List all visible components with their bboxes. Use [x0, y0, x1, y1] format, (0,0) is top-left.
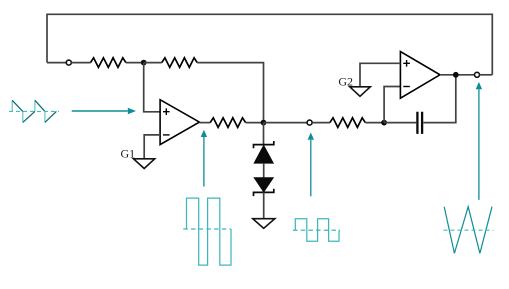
- capacitor C1: [417, 112, 422, 134]
- triangle waveform icon: [444, 207, 492, 254]
- ground G3: [253, 219, 275, 229]
- resistor R1: [91, 58, 126, 68]
- wire between zeners: [263, 163, 265, 178]
- square waveform small centerline: [293, 229, 340, 231]
- wire U1 output stub: [199, 122, 210, 124]
- junction dot C: [381, 120, 387, 126]
- junction dot B: [261, 120, 267, 126]
- wire node B to zener stack: [263, 123, 265, 145]
- wire capacitor to output node: [423, 75, 456, 123]
- op-amp U1 plus symbol: [163, 108, 170, 115]
- wire node B to terminal: [264, 122, 308, 124]
- wire U2 plus input to ground: [360, 63, 400, 87]
- zener diode D1: [254, 146, 273, 164]
- junction dot D: [453, 72, 459, 78]
- wire junction C to U2 minus input: [384, 87, 400, 123]
- arrow to U1 output: [201, 130, 207, 187]
- resistor R4: [330, 118, 365, 128]
- resistor R2: [162, 58, 197, 68]
- wire junction A to op-amp U1 plus input: [144, 63, 160, 112]
- wire terminal to R4: [312, 122, 330, 124]
- junction dot A: [141, 60, 147, 66]
- op-amp U1: [160, 100, 199, 145]
- wire zener to ground: [263, 192, 265, 218]
- square waveform icon large: [187, 198, 232, 265]
- wire terminal to feedback: [480, 74, 493, 76]
- node output terminal circle: [475, 72, 480, 77]
- wire junction to R2: [144, 62, 162, 64]
- wire feedback loop top: [47, 14, 492, 75]
- op-amp U2: [400, 52, 440, 99]
- square waveform large centerline: [183, 228, 231, 230]
- op-amp U2 minus symbol: [403, 86, 410, 88]
- wire junction C to capacitor: [384, 122, 416, 124]
- wire terminal to R1: [71, 62, 90, 64]
- svg-text:G2: G2: [338, 74, 353, 88]
- wire U1 minus input to ground: [144, 135, 160, 159]
- wire R2 down to mid node: [197, 63, 263, 123]
- op-amp U2 plus symbol: [403, 60, 410, 67]
- triangle waveform centerline: [444, 229, 494, 231]
- ground G2: [350, 87, 371, 97]
- wire R1 to junction: [126, 62, 144, 64]
- arrow to square-wave terminal: [308, 133, 314, 197]
- ground G1: [134, 159, 155, 169]
- wire left input segment: [47, 62, 66, 64]
- sawtooth waveform icon: [12, 100, 56, 122]
- node square-wave terminal circle: [307, 120, 312, 125]
- op-amp U1 minus symbol: [163, 134, 170, 136]
- arrow to U1 plus input: [72, 108, 136, 115]
- wire R4 to junction C: [365, 122, 384, 124]
- resistor R3: [210, 118, 245, 128]
- wire U2 output: [440, 74, 474, 76]
- sawtooth centerline: [9, 110, 59, 112]
- zener diode D2 cathode bar: [254, 189, 274, 196]
- zener diode D2: [254, 178, 273, 192]
- svg-text:G1: G1: [121, 147, 136, 161]
- arrow to output terminal: [476, 82, 482, 200]
- node input terminal circle: [66, 60, 71, 65]
- zener diode D1 cathode bar: [254, 141, 274, 148]
- wire R3 to node B: [246, 122, 264, 124]
- square waveform icon small: [295, 219, 339, 242]
